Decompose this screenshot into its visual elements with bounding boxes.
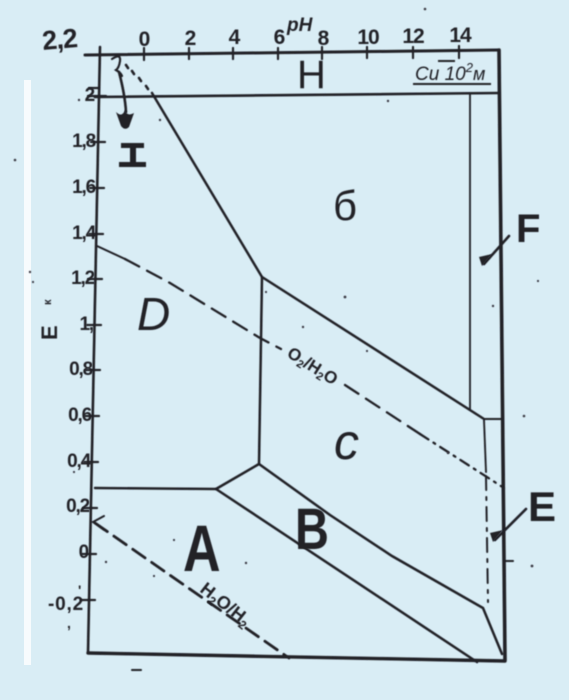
svg-text:1,4: 1,4 xyxy=(72,223,96,244)
svg-text:4: 4 xyxy=(229,26,241,49)
B(Cyr)/C boundary diagonal xyxy=(262,277,484,419)
svg-text:0,4: 0,4 xyxy=(67,451,91,472)
svg-text:E: E xyxy=(528,483,556,530)
F strip left vertical xyxy=(469,93,471,410)
Cu line squiggle start xyxy=(112,56,122,76)
svg-text:1,2: 1,2 xyxy=(71,268,94,289)
svg-text:0,6: 0,6 xyxy=(68,405,91,426)
F arrow xyxy=(484,236,509,264)
pH ticks xyxy=(144,46,459,60)
svg-text:10: 10 xyxy=(357,26,379,49)
svg-text:A: A xyxy=(183,511,221,585)
frame: left axis xyxy=(88,47,100,653)
svg-text:,: , xyxy=(67,615,71,631)
junction segment up to vertical xyxy=(216,464,259,489)
Cu line dotted start xyxy=(126,65,148,89)
frame: top axis xyxy=(85,50,499,55)
svg-text:Cu 102м: Cu 102м xyxy=(415,60,485,85)
svg-text:H: H xyxy=(297,53,326,97)
svg-text:c: c xyxy=(334,414,359,470)
svg-text:E: E xyxy=(37,325,62,340)
svg-text:12: 12 xyxy=(402,25,424,48)
svg-text:pH: pH xyxy=(286,15,314,36)
O2/H2O dashed line xyxy=(125,259,281,349)
svg-text:1,6: 1,6 xyxy=(72,177,95,198)
I arrow shaft xyxy=(119,72,126,112)
svg-text:к: к xyxy=(42,299,54,305)
C/B boundary xyxy=(259,464,502,654)
svg-text:2: 2 xyxy=(85,85,95,106)
svg-text:F: F xyxy=(516,207,540,251)
Cu/Cu2O horizontal xyxy=(95,488,216,489)
I arrow head xyxy=(116,110,134,129)
scattered specks xyxy=(14,8,539,577)
svg-text:2,2: 2,2 xyxy=(41,23,78,56)
E dash-dot vertical xyxy=(486,476,488,602)
short horizontal at F strip bottom xyxy=(484,418,501,420)
O2/H2O dash-dot tail xyxy=(420,434,504,488)
svg-text:0,2: 0,2 xyxy=(66,496,89,517)
svg-text:D: D xyxy=(137,288,170,340)
A/B boundary xyxy=(216,489,477,662)
pH tick labels xyxy=(139,24,472,51)
small dash below bottom xyxy=(132,669,141,671)
svg-text:B: B xyxy=(295,497,329,562)
H2O/H2 arrowhead xyxy=(93,516,104,530)
svg-text:0: 0 xyxy=(139,28,150,51)
svg-text:6: 6 xyxy=(274,26,285,49)
F arrow head xyxy=(479,254,492,266)
E ticks xyxy=(81,88,106,600)
svg-text:14: 14 xyxy=(449,24,472,47)
E tick labels xyxy=(48,85,97,615)
O2/H2O dashed line: solid start xyxy=(97,246,125,259)
svg-text:0,8: 0,8 xyxy=(69,359,92,380)
svg-text:': ' xyxy=(78,582,81,598)
svg-text:б: б xyxy=(333,182,357,229)
O2/H2O dashed line after label gap xyxy=(345,385,420,434)
svg-text:0: 0 xyxy=(79,542,89,563)
H band line xyxy=(95,93,499,97)
E dash-dot vertical: solid head xyxy=(484,420,486,472)
frame: bottom border xyxy=(88,653,505,661)
frame: right border xyxy=(499,50,505,660)
I beam label xyxy=(119,143,146,167)
white scan fold strip xyxy=(24,80,31,665)
svg-text:2: 2 xyxy=(185,27,196,50)
Cu2+ / CuO boundary (solid diagonal) xyxy=(152,93,262,277)
svg-text:1,: 1, xyxy=(80,314,94,335)
H2O/H2 dashed line xyxy=(95,523,289,658)
E arrow head xyxy=(490,530,503,542)
vertical Cu2+/CuO line xyxy=(259,277,262,464)
svg-text:1,8: 1,8 xyxy=(72,131,95,152)
svg-text:8: 8 xyxy=(318,27,330,50)
E arrow xyxy=(495,509,526,540)
